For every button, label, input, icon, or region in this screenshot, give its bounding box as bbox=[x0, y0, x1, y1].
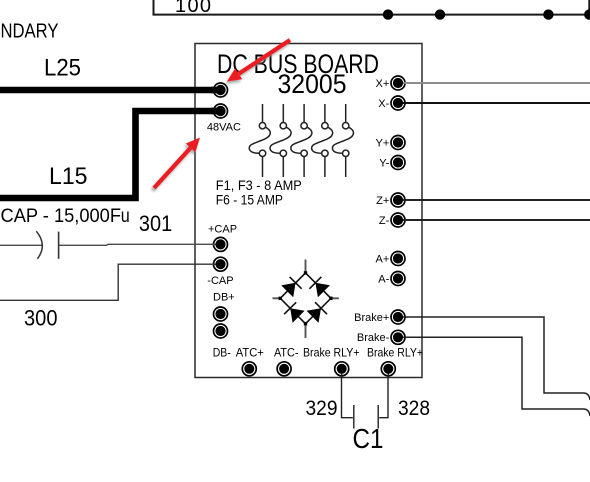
terminal Y+ bbox=[391, 136, 405, 150]
fuse F4 bbox=[312, 104, 333, 177]
terminal Y- bbox=[391, 156, 405, 170]
svg-text:48VAC: 48VAC bbox=[207, 121, 241, 133]
terminal Brake- bbox=[391, 330, 407, 344]
terminal A+ bbox=[391, 252, 405, 266]
svg-text:Z+: Z+ bbox=[376, 195, 389, 207]
svg-text:329: 329 bbox=[306, 396, 338, 420]
svg-text:DB-: DB- bbox=[213, 345, 231, 359]
wire Brake+ bbox=[405, 317, 590, 400]
svg-text:X+: X+ bbox=[376, 78, 390, 90]
node junction dot 1 bbox=[383, 9, 393, 19]
svg-text:Z-: Z- bbox=[379, 215, 390, 227]
wire +CAP lead left of capacitor bbox=[0, 244, 43, 246]
connector C1 pin right bbox=[377, 405, 379, 429]
annotation arrow 2 bbox=[154, 138, 200, 189]
svg-text:F6 - 15 AMP: F6 - 15 AMP bbox=[216, 193, 283, 208]
svg-text:ATC+: ATC+ bbox=[236, 346, 264, 360]
svg-text:Y-: Y- bbox=[379, 157, 389, 169]
capacitor straight plate bbox=[58, 232, 60, 259]
svg-text:Brake+: Brake+ bbox=[354, 312, 389, 324]
connector C1 pin left bbox=[353, 405, 355, 429]
svg-text:A+: A+ bbox=[376, 253, 390, 265]
wire 300 to -CAP bbox=[0, 264, 214, 300]
terminal DB- bbox=[214, 324, 228, 338]
capacitor curved plate bbox=[36, 231, 42, 259]
svg-text:328: 328 bbox=[398, 396, 430, 420]
svg-text:301: 301 bbox=[139, 211, 172, 236]
svg-text:F1, F3 - 8 AMP: F1, F3 - 8 AMP bbox=[216, 178, 302, 193]
terminal X- bbox=[391, 96, 407, 110]
wire thick L25 bbox=[0, 87, 213, 94]
wire Brake- bbox=[405, 337, 590, 416]
svg-text:Brake RLY+: Brake RLY+ bbox=[303, 346, 360, 360]
wire 301 to +CAP bbox=[59, 244, 214, 245]
svg-text:Brake RLY+: Brake RLY+ bbox=[367, 346, 423, 360]
terminal Brake RLY+ left bbox=[335, 362, 349, 377]
svg-text:u: u bbox=[121, 205, 130, 227]
wire thick L15 bbox=[0, 111, 213, 198]
bridge vertex dots bbox=[279, 271, 333, 325]
terminal Brake+ bbox=[391, 310, 407, 324]
terminal 48VAC bottom bbox=[211, 104, 228, 118]
svg-text:L25: L25 bbox=[44, 55, 81, 82]
wire Z- bbox=[405, 219, 590, 221]
fuse F1 bbox=[249, 104, 270, 177]
fuse F6 bbox=[332, 104, 353, 177]
diode lower-left bbox=[284, 302, 305, 322]
terminal 48VAC top bbox=[211, 83, 228, 97]
terminal ATC- bbox=[277, 362, 291, 376]
fuse F3 bbox=[291, 104, 312, 177]
svg-text:L15: L15 bbox=[49, 163, 88, 190]
terminal X+ bbox=[391, 76, 407, 90]
svg-text:100: 100 bbox=[175, 0, 211, 17]
svg-text:32005: 32005 bbox=[278, 69, 347, 99]
svg-text:NDARY: NDARY bbox=[1, 21, 59, 43]
diode lower-right bbox=[307, 302, 328, 323]
terminal +CAP bbox=[213, 237, 228, 251]
node junction dot 2 bbox=[435, 9, 445, 19]
wire top bus line bbox=[154, 0, 590, 15]
wire Brake RLY+ right to C1 bbox=[379, 376, 388, 418]
terminal Z+ bbox=[391, 193, 407, 207]
svg-text:300: 300 bbox=[24, 306, 58, 331]
svg-text:X-: X- bbox=[378, 98, 389, 110]
node junction dot 4 bbox=[584, 9, 590, 19]
node junction dot 3 bbox=[543, 9, 553, 19]
wire X- bbox=[405, 102, 590, 104]
terminal Brake RLY+ right bbox=[381, 362, 395, 377]
svg-text:+CAP: +CAP bbox=[208, 223, 237, 235]
annotation arrow 1 bbox=[227, 40, 290, 82]
svg-text:DB+: DB+ bbox=[213, 292, 235, 304]
wire Z+ bbox=[405, 199, 590, 201]
terminal ATC+ bbox=[242, 362, 256, 376]
terminal DB+ bbox=[214, 307, 228, 321]
board outline DC BUS BOARD bbox=[195, 44, 422, 378]
wire right edge stub bbox=[588, 0, 590, 15]
svg-text:ATC-: ATC- bbox=[274, 346, 299, 360]
terminal Z- bbox=[391, 213, 407, 227]
diode upper-left bbox=[281, 277, 302, 297]
svg-text:Brake-: Brake- bbox=[357, 332, 390, 344]
svg-text:C1: C1 bbox=[353, 423, 384, 454]
bridge rectifier diamond bbox=[280, 273, 331, 324]
fuse F2 bbox=[270, 104, 291, 177]
wire X+ bbox=[405, 82, 590, 84]
svg-text:Y+: Y+ bbox=[376, 137, 390, 149]
svg-text:A-: A- bbox=[378, 273, 389, 285]
terminal -CAP bbox=[213, 257, 228, 271]
diode upper-right bbox=[309, 277, 330, 298]
terminal A- bbox=[391, 272, 405, 286]
svg-text:CAP - 15,000F: CAP - 15,000F bbox=[1, 205, 122, 227]
svg-text:-CAP: -CAP bbox=[207, 275, 233, 287]
wire Brake RLY+ left to C1 bbox=[342, 376, 353, 418]
bridge rectifier stubs bbox=[273, 260, 339, 339]
